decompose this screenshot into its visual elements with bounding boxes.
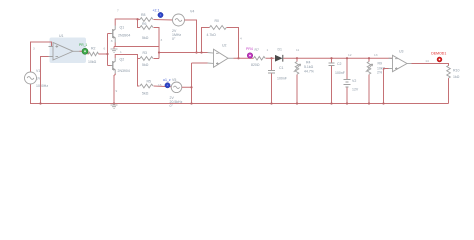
resistor R2 <box>89 52 99 56</box>
main output rail <box>297 57 393 59</box>
svg-text:Q2: Q2 <box>120 58 125 62</box>
svg-text:10kΩ: 10kΩ <box>88 60 97 64</box>
junction C2 tap <box>330 57 332 59</box>
junction V4 drop <box>195 51 197 53</box>
svg-text:4.7kΩ: 4.7kΩ <box>207 33 217 37</box>
wire V2 top to U1 +in <box>31 42 52 73</box>
probe blue u1_z <box>165 83 170 88</box>
junction rail C1 <box>270 102 272 104</box>
resistor R0 feedback <box>202 28 210 53</box>
svg-text:R0: R0 <box>215 19 220 23</box>
wire U3 output <box>412 64 449 67</box>
svg-text:R8: R8 <box>141 13 146 17</box>
junction R0 left <box>200 51 202 53</box>
svg-text:0°: 0° <box>170 104 174 108</box>
probe PR4 magenta <box>247 53 252 58</box>
svg-text:DEMOD1: DEMOD1 <box>431 52 446 56</box>
junction summing left <box>158 51 160 53</box>
wire R10 down to rail <box>448 78 450 103</box>
svg-text:2N3904: 2N3904 <box>118 34 130 38</box>
wire U3 -in to rail <box>384 69 389 104</box>
junction rail R4 <box>296 102 298 104</box>
wire Q1 emitter to ground <box>114 43 159 47</box>
op-amp U1 selection highlight <box>50 38 87 64</box>
potentiometer R4 <box>296 58 298 103</box>
svg-text:1kΩ: 1kΩ <box>453 75 460 79</box>
svg-text:R9: R9 <box>378 62 383 66</box>
resistor R3 <box>140 57 153 61</box>
svg-text:Q1: Q1 <box>120 26 125 30</box>
svg-text:C1: C1 <box>279 66 284 70</box>
wire U1 output row <box>80 51 108 54</box>
wire D1 to rail <box>283 57 297 59</box>
junction rail gnd <box>113 102 115 104</box>
svg-text:R7: R7 <box>255 48 260 52</box>
wire U1 -in down to ground rail <box>41 57 49 104</box>
svg-text:820Ω: 820Ω <box>251 63 260 67</box>
wire R7 to D1 <box>266 57 275 59</box>
svg-text:R3: R3 <box>143 51 148 55</box>
svg-text:R6: R6 <box>142 22 147 26</box>
potentiometer R9 <box>368 58 370 103</box>
svg-text:U1: U1 <box>59 34 64 38</box>
svg-text:5kΩ: 5kΩ <box>142 36 149 40</box>
wire V5 right up to U2 +in <box>182 63 208 104</box>
junction rail U3 <box>382 102 384 104</box>
svg-text:8: 8 <box>111 39 113 43</box>
junction rail at U1 -in drop <box>39 102 41 104</box>
svg-text:14: 14 <box>425 59 429 63</box>
svg-text:5.1kΩ: 5.1kΩ <box>304 65 314 69</box>
svg-text:V1: V1 <box>36 69 40 73</box>
wire V2 bottom + bottom ground rail <box>31 84 449 104</box>
svg-text:2%: 2% <box>377 71 382 75</box>
svg-text:1000Hz: 1000Hz <box>36 84 48 88</box>
junction rail C2 <box>330 102 332 104</box>
wire summing to U2 -in <box>159 52 208 54</box>
svg-text:U2: U2 <box>222 44 227 48</box>
svg-text:12V: 12V <box>352 88 359 92</box>
junction R4 tap <box>296 57 298 59</box>
svg-text:12: 12 <box>348 53 352 57</box>
svg-text:V2: V2 <box>352 79 356 83</box>
svg-text:D1: D1 <box>278 48 283 52</box>
capacitor C1 <box>271 58 273 103</box>
source V4 <box>173 14 185 26</box>
junction R9 tap <box>368 57 370 59</box>
svg-text:R5: R5 <box>147 80 152 84</box>
junction pair left <box>136 18 138 20</box>
svg-text:V4: V4 <box>190 10 194 14</box>
source V1 <box>25 72 37 84</box>
svg-text:u1_z: u1_z <box>163 78 171 82</box>
svg-text:1: 1 <box>267 48 269 52</box>
probe PR1 <box>82 48 88 54</box>
diode D1 <box>274 57 276 59</box>
svg-text:5kΩ: 5kΩ <box>142 63 149 67</box>
svg-text:PR4: PR4 <box>246 47 253 51</box>
junction rail V5 <box>190 102 192 104</box>
svg-text:R4: R4 <box>306 61 311 65</box>
op-amp U3 <box>389 55 412 71</box>
wire R8 to V4 <box>154 19 174 22</box>
resistor R10 <box>447 66 451 79</box>
ground Q1 <box>111 49 118 52</box>
op-amp U1 <box>49 43 80 61</box>
resistor R6 <box>140 26 153 30</box>
junction node X <box>106 53 108 55</box>
junction rail battery <box>346 102 348 104</box>
probe DEMOD1 red <box>437 57 442 62</box>
svg-text:6: 6 <box>104 47 106 51</box>
svg-text:R2: R2 <box>91 46 96 50</box>
svg-text:+2.1: +2.1 <box>153 9 160 13</box>
svg-text:13: 13 <box>374 53 378 57</box>
wire Q2 collector row <box>115 55 139 87</box>
battery V2 <box>346 58 348 103</box>
svg-text:100nF: 100nF <box>335 71 345 75</box>
resistor R8 <box>140 18 153 22</box>
transistor Q1 <box>111 26 116 43</box>
wire R3 stub <box>138 58 141 60</box>
svg-text:V5: V5 <box>172 78 176 82</box>
wire Q1 collector to resistor pair <box>115 19 137 26</box>
wire R6 down to summing node <box>154 28 160 59</box>
wire V4 right down to summing wire <box>185 20 197 53</box>
resistor R5 <box>140 84 153 88</box>
svg-text:PR_1: PR_1 <box>79 43 87 47</box>
svg-text:44.7%: 44.7% <box>304 70 314 74</box>
svg-text:0°: 0° <box>172 37 176 41</box>
svg-text:1: 1 <box>120 50 122 54</box>
svg-text:3: 3 <box>161 38 163 42</box>
svg-text:2N3904: 2N3904 <box>118 69 130 73</box>
probe blue +2.1 <box>158 12 163 17</box>
svg-text:16: 16 <box>158 83 162 87</box>
resistor R7 <box>254 56 266 60</box>
svg-text:9: 9 <box>116 89 118 93</box>
wire Q2 emitter down to rail <box>114 74 115 104</box>
svg-text:5kΩ: 5kΩ <box>142 92 149 96</box>
source V5 <box>171 82 182 93</box>
junction V5 right <box>190 86 192 88</box>
svg-text:R10: R10 <box>453 69 459 73</box>
node X vertical wire to Q1/Q2 bases <box>108 34 111 66</box>
op-amp U2 <box>208 49 234 67</box>
wire R3 up to summing <box>154 58 160 60</box>
junction battery tap <box>346 57 348 59</box>
svg-text:C2: C2 <box>337 62 342 66</box>
transistor Q2 <box>111 58 116 74</box>
svg-text:7: 7 <box>117 9 119 13</box>
svg-text:4: 4 <box>240 37 242 41</box>
junction rail R9 <box>368 102 370 104</box>
junction R0 right at output <box>237 57 239 59</box>
ground bottom <box>111 104 118 109</box>
capacitor C2 <box>331 58 333 103</box>
wire resistor pair left link <box>138 19 141 28</box>
junction C1 tap <box>270 57 272 59</box>
svg-text:U3: U3 <box>399 49 404 53</box>
svg-text:3: 3 <box>33 47 35 51</box>
svg-text:11: 11 <box>296 48 299 52</box>
svg-text:100nF: 100nF <box>277 77 287 81</box>
wire U2 output row <box>234 57 254 59</box>
wire R5 to V5 <box>154 85 172 88</box>
